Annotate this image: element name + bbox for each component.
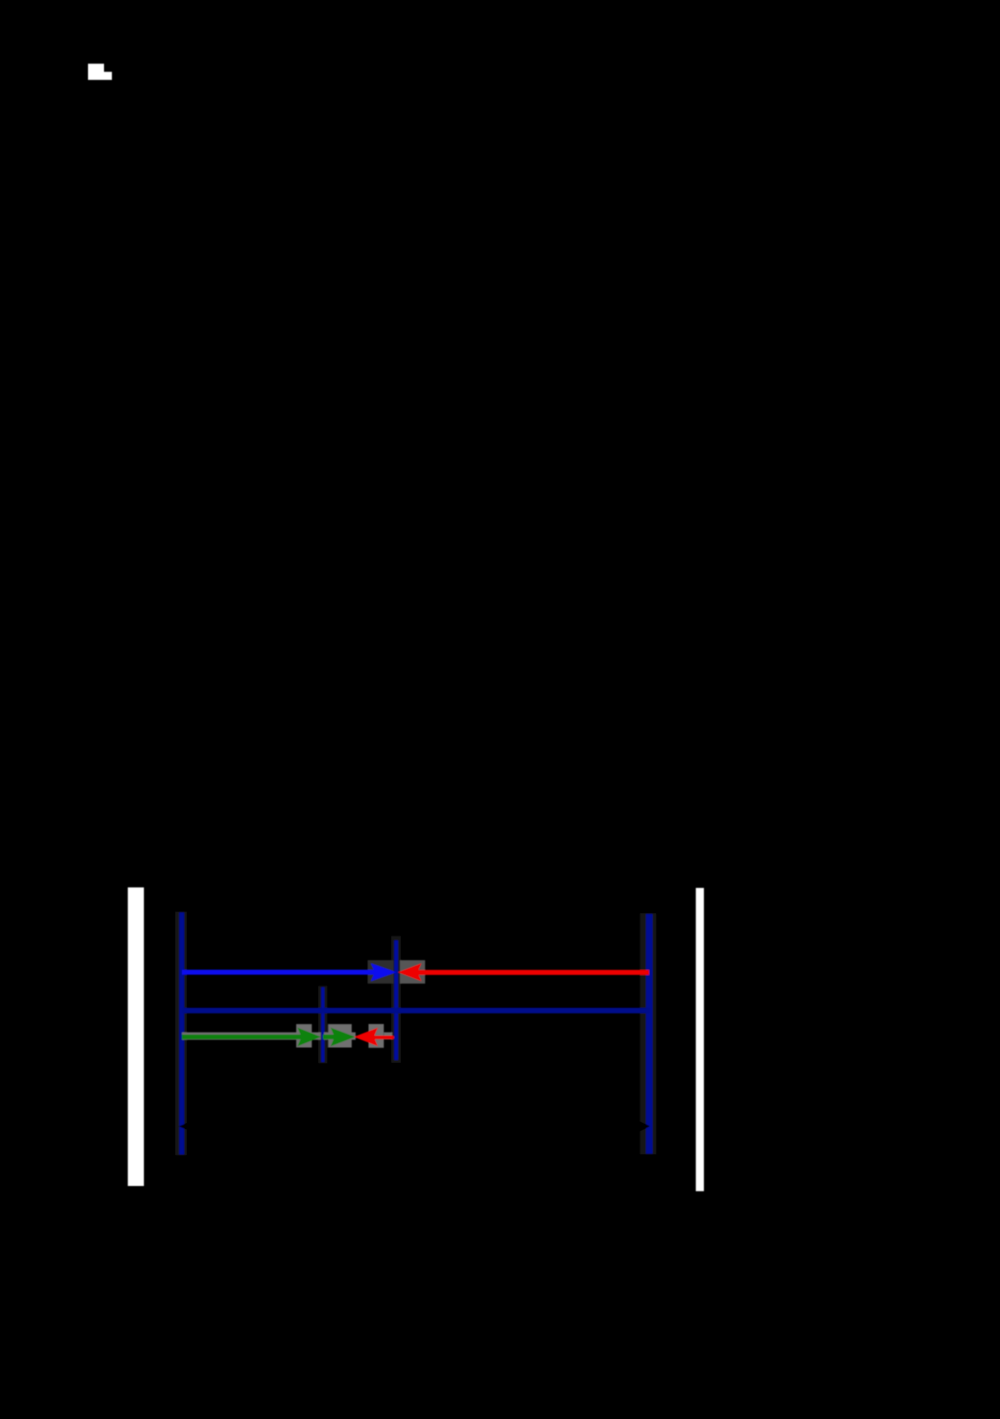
white L-shaped mark top-left [88,64,112,80]
green arrow 2 head [331,1028,356,1047]
left wall line halo [175,912,187,1156]
left wall line [179,912,184,1154]
tick line x1 [321,987,324,1062]
tick line x1 halo [318,986,327,1063]
grey band along red bottom arrow shaft [384,1032,393,1039]
black dimension arrowhead right (over right wall) [637,1120,650,1133]
right wall white bar [696,888,704,1191]
blue velocity arrow shaft [182,970,384,975]
red top arrow shaft [412,970,649,975]
grey band along green arrow shaft [182,1032,321,1040]
grey label box of green arrow 1 [296,1024,312,1047]
grey band along green arrow 2 [324,1032,356,1040]
green arrow 1 head [298,1028,321,1047]
green arrow 1 shaft [182,1035,308,1040]
red bottom arrow head [354,1028,378,1047]
grey label box of blue arrow [368,960,394,983]
red top arrow head [398,963,422,981]
green arrow 2 shaft stub [323,1035,340,1040]
tick line x2 halo [391,936,401,1063]
right wall line [646,914,653,1154]
navy long horizontal line [182,1008,650,1014]
blue velocity arrow head [371,963,397,981]
tick line x2 [394,940,398,1060]
right wall line halo [640,913,656,1154]
red bottom arrow shaft [370,1036,394,1040]
black dimension arrowhead left (over left wall) [179,1122,190,1131]
left wall white bar [128,887,144,1186]
grey label box of red bottom arrow [369,1024,384,1048]
grey label box of green arrow 2 [328,1024,352,1047]
grey label box of red top arrow [400,960,425,983]
